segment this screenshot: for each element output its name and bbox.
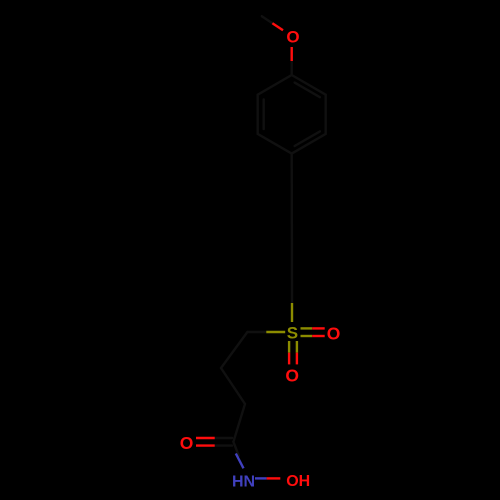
wire O-ring black half: [291, 61, 293, 75]
wire CH3-O red half-bond: [272, 23, 283, 30]
wire C-N blue half-bond: [236, 454, 244, 469]
wire chain ring to sulfonyl carbon: [291, 154, 294, 284]
wire C-S olive half-bond: [291, 303, 293, 322]
svg-text:O: O: [327, 323, 341, 343]
wire methyl C half-bond: [262, 16, 273, 23]
benzene ring: [258, 75, 326, 154]
wire S=O down olive halves: [288, 341, 290, 353]
sulfonyl group: [266, 303, 312, 353]
svg-text:O: O: [285, 366, 299, 386]
svg-text:OH: OH: [286, 473, 310, 490]
wire C=O black halves: [215, 437, 232, 439]
svg-text:HN: HN: [232, 473, 255, 490]
svg-text:O: O: [180, 433, 194, 453]
svg-text:O: O: [286, 27, 299, 46]
carbon skeleton (near-black): [215, 16, 326, 456]
hydroxamic acid group: [196, 438, 215, 446]
wire left chain to carbonyl: [221, 332, 247, 442]
ring double bond inner lines: [295, 83, 320, 98]
wire C-S black half: [291, 284, 293, 303]
wire C=O red halves: [196, 437, 215, 439]
wire C-N black half: [233, 442, 238, 456]
wire S-C left black half: [247, 331, 266, 333]
wire O-ring red half-bond: [291, 47, 293, 61]
wire N-O bond blue half: [255, 477, 267, 479]
methoxy group: [272, 23, 291, 61]
wire S-C left olive half-bond: [266, 331, 285, 333]
wire S=O right olive halves: [301, 327, 313, 329]
wire S=O down red halves: [288, 353, 290, 365]
svg-text:S: S: [287, 324, 298, 343]
wire N-O bond red half: [267, 477, 281, 479]
wire S=O right red halves: [312, 327, 325, 329]
